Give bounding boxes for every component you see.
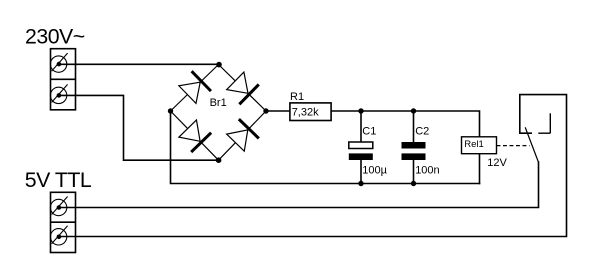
- svg-text:5V TTL: 5V TTL: [25, 168, 92, 192]
- svg-text:100µ: 100µ: [362, 165, 387, 177]
- svg-text:230V~: 230V~: [25, 25, 85, 49]
- svg-text:C2: C2: [415, 126, 429, 138]
- svg-text:R1: R1: [290, 91, 304, 103]
- svg-text:7,32k: 7,32k: [292, 106, 319, 118]
- svg-text:Br1: Br1: [210, 97, 227, 109]
- svg-text:Rel1: Rel1: [464, 139, 484, 150]
- svg-text:C1: C1: [362, 126, 376, 138]
- svg-text:12V: 12V: [487, 157, 507, 169]
- svg-text:100n: 100n: [415, 165, 439, 177]
